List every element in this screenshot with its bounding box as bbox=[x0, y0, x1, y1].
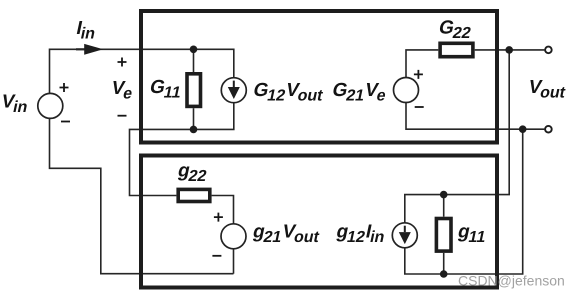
svg-text:g12Iin: g12Iin bbox=[334, 222, 388, 246]
svg-text:g22: g22 bbox=[175, 161, 210, 185]
svg-text:Vout: Vout bbox=[526, 77, 569, 101]
svg-text:Iin: Iin bbox=[74, 18, 99, 42]
svg-text:G21Ve: G21Ve bbox=[330, 80, 389, 104]
svg-text:g11: g11 bbox=[455, 222, 489, 246]
svg-text:G12Vout: G12Vout bbox=[251, 80, 327, 104]
svg-text:CSDN@jefenson: CSDN@jefenson bbox=[458, 273, 565, 289]
svg-text:Ve: Ve bbox=[109, 78, 136, 102]
svg-text:G22: G22 bbox=[436, 18, 474, 42]
svg-text:g21Vout: g21Vout bbox=[250, 222, 323, 246]
svg-text:G11: G11 bbox=[147, 77, 184, 101]
svg-text:Vin: Vin bbox=[0, 92, 31, 116]
